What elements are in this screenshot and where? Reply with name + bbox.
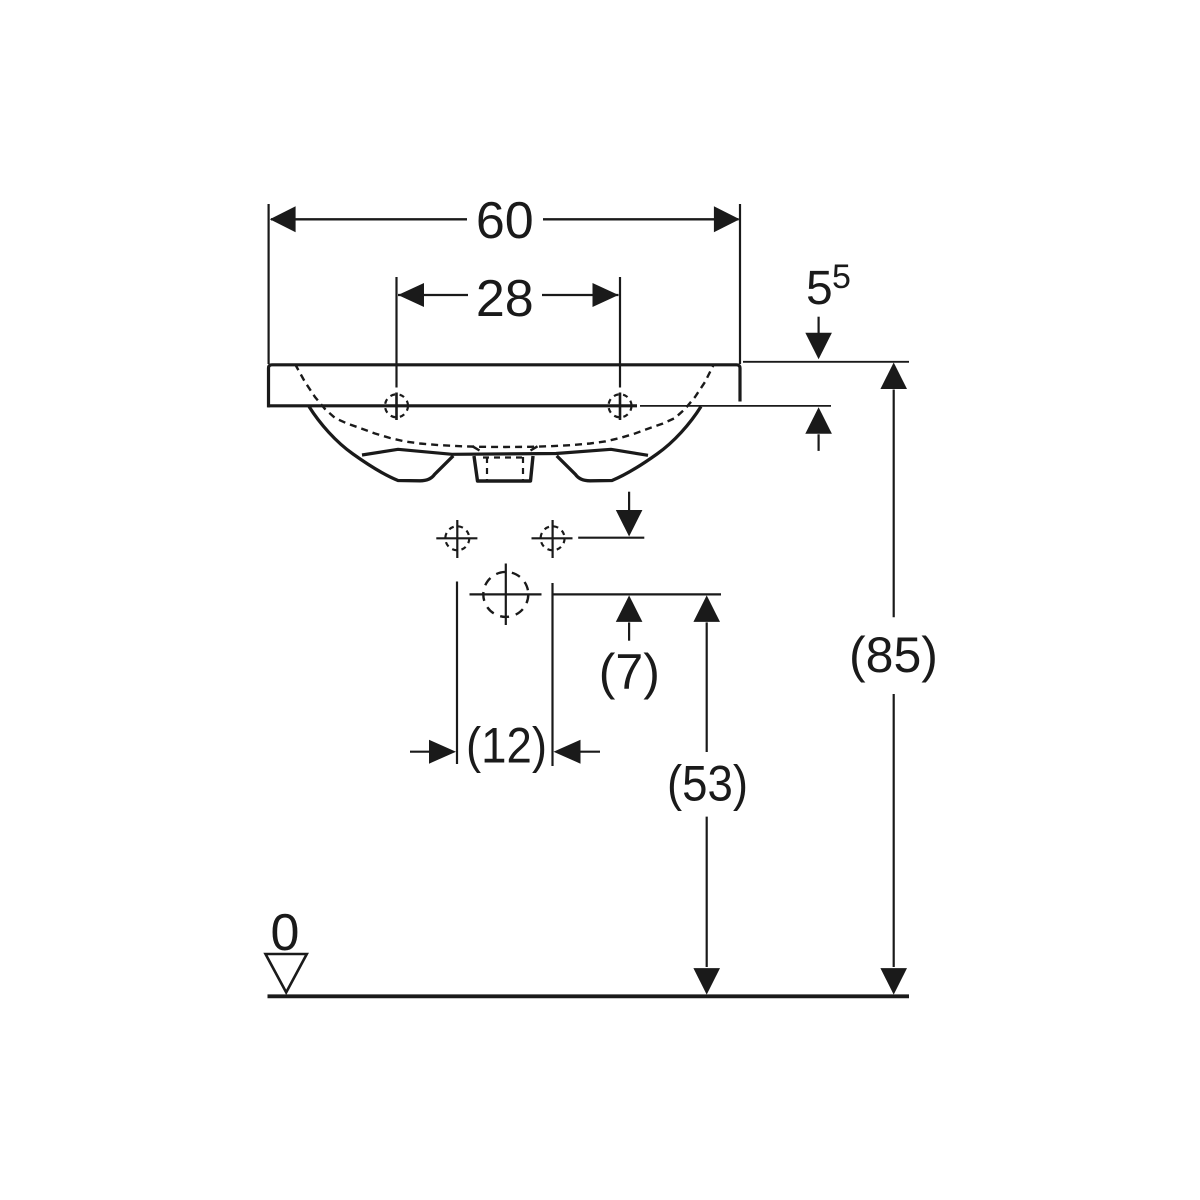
dimension 60: dimension line left part: [271, 218, 467, 220]
dimension 28: dimension line left part: [398, 294, 468, 296]
dimension 5(5): upper arrowhead (down): [805, 333, 832, 360]
dimension 28: right extension line: [619, 277, 621, 388]
left fixing hole: dashed circle: [445, 526, 469, 550]
dimension (85): lower line segment: [893, 694, 895, 967]
svg-text:(12): (12): [466, 718, 547, 774]
dimension (85): top arrowhead (up): [880, 363, 907, 390]
dimension (53): upper line segment: [706, 622, 708, 752]
right fixing hole: dashed circle: [541, 526, 565, 550]
dimension (12): right arrowhead (points left): [554, 740, 581, 764]
dimension (53): lower line segment: [706, 817, 708, 967]
basin inner edge notch right: [531, 446, 538, 450]
dimension (7): lower arrowhead (up): [616, 595, 643, 622]
rim bottom edge thin continuation to 5.5 dimension: [640, 405, 831, 407]
dimension (53): top arrowhead (up): [693, 595, 720, 622]
dimension 60: right arrowhead: [714, 206, 740, 232]
basin inner edge notch left: [473, 446, 480, 450]
dimension (7): upper arrowhead (down): [616, 510, 643, 537]
right fixing hole: horizontal arm: [532, 537, 573, 539]
drain hidden hole: dashed left line: [486, 457, 488, 480]
dimension 5(5): lower arrow tail: [817, 434, 819, 451]
dimension 5(5): upper arrow tail: [817, 317, 819, 334]
trap outlet: horizontal arm: [470, 593, 542, 595]
bowl bottom crease line: [362, 449, 648, 455]
right tap hole: dashed circle: [609, 394, 632, 417]
dimension (85): upper line segment: [893, 390, 895, 618]
basin inner edge (dashed arc): [295, 364, 714, 447]
svg-text:60: 60: [476, 192, 534, 250]
dimension 5(5): lower arrowhead (up): [805, 407, 832, 434]
fixing holes reference line: [578, 537, 644, 539]
washbasin rim (front view, top + sides): [269, 365, 741, 408]
dimension 28: left extension line: [395, 277, 397, 388]
svg-text:5: 5: [806, 262, 833, 315]
svg-text:5: 5: [832, 258, 851, 296]
dimension (12): left arrow tail: [410, 751, 430, 753]
svg-text:(53): (53): [667, 756, 748, 812]
left fixing hole: horizontal arm: [436, 537, 477, 539]
bowl outer contour right: [557, 407, 701, 481]
dimension 28: right arrowhead: [593, 283, 619, 307]
dimension (12): right arrow tail: [581, 751, 601, 753]
dimension 60: right extension line: [739, 204, 741, 364]
trap outlet: vertical arm: [505, 564, 507, 626]
dimension (12): left arrowhead (points right): [429, 740, 456, 764]
dimension (53): bottom arrowhead (down): [693, 968, 720, 995]
dimension 28: dimension line right part: [542, 294, 619, 296]
rim top edge extension line to (85) dimension: [743, 361, 909, 363]
svg-text:28: 28: [476, 270, 534, 328]
dimension 60: left extension line: [268, 204, 270, 364]
drain hidden hole: dashed right line: [522, 457, 524, 480]
dimension (85): bottom arrowhead (down): [880, 968, 907, 995]
right tap hole: vertical centerline arm: [619, 393, 622, 421]
dimension (7): upper arrow tail: [628, 492, 630, 511]
right fixing hole: vertical arm: [551, 520, 553, 558]
drain boss (trapezoid): [474, 456, 533, 481]
trap level reference line: [552, 593, 722, 595]
dimension 60: dimension line right part: [543, 218, 739, 220]
trap outlet: dashed circle: [483, 572, 528, 617]
dimension 60: left arrowhead: [270, 206, 296, 232]
dimension (7): lower arrow tail: [628, 622, 630, 640]
left tap hole: vertical centerline arm: [395, 393, 398, 421]
dimension (12): right extension line: [551, 583, 553, 766]
dimension 28: left arrowhead: [398, 283, 424, 307]
bowl outer contour left: [309, 407, 453, 481]
washbasin rim bottom edge (thick part): [268, 404, 638, 407]
left tap hole: dashed circle: [385, 394, 408, 417]
datum triangle symbol: [266, 954, 307, 992]
dimension (12): left extension line: [456, 582, 458, 765]
svg-text:(85): (85): [849, 627, 938, 683]
floor line: [268, 994, 910, 998]
drain hidden hole: dashed top line: [483, 456, 527, 458]
left fixing hole: vertical arm: [456, 520, 458, 558]
svg-text:(7): (7): [599, 644, 660, 700]
